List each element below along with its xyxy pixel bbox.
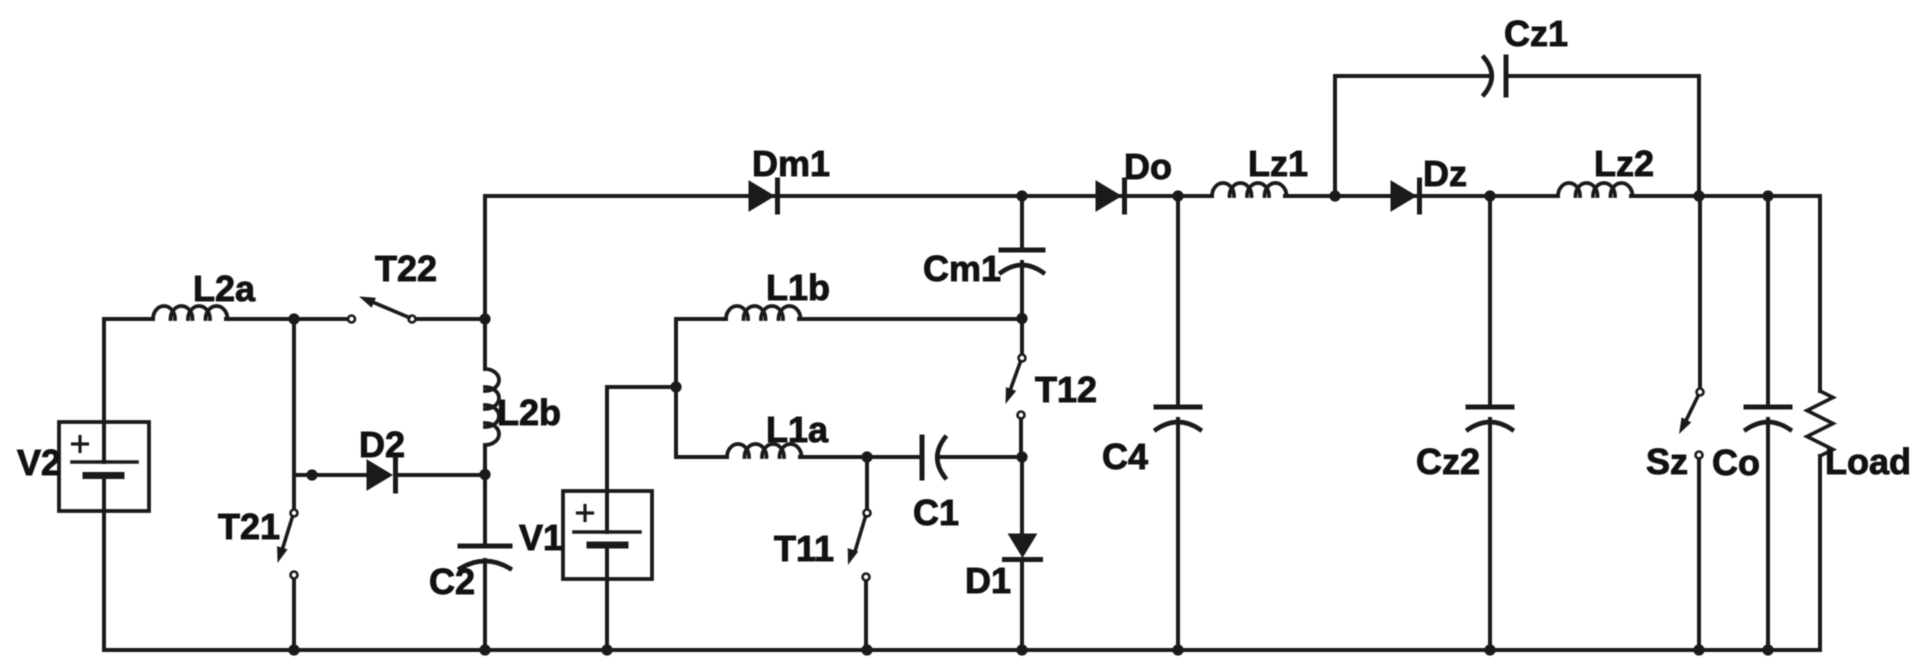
svg-text:Lz2: Lz2 [1594,143,1654,184]
svg-text:L2a: L2a [193,268,256,309]
svg-text:Co: Co [1712,442,1760,483]
svg-text:Dz: Dz [1423,153,1467,194]
svg-text:T22: T22 [375,248,437,289]
svg-text:T12: T12 [1035,369,1097,410]
svg-text:Load: Load [1825,441,1911,482]
svg-text:C1: C1 [913,492,959,533]
svg-text:L1a: L1a [766,409,829,450]
svg-text:L1b: L1b [766,267,830,308]
svg-text:L2b: L2b [497,392,561,433]
svg-text:T21: T21 [218,506,280,547]
svg-text:V1: V1 [519,517,563,558]
svg-text:Cz1: Cz1 [1504,13,1568,54]
svg-text:D2: D2 [359,424,405,465]
svg-text:Cz2: Cz2 [1416,441,1480,482]
svg-text:Sz: Sz [1646,441,1688,482]
svg-text:C2: C2 [429,561,475,602]
svg-text:V2: V2 [17,442,61,483]
svg-text:T11: T11 [774,528,834,569]
svg-text:Dm1: Dm1 [752,143,830,184]
svg-text:C4: C4 [1102,436,1148,477]
svg-text:Do: Do [1124,146,1172,187]
svg-text:Lz1: Lz1 [1248,143,1308,184]
svg-text:Cm1: Cm1 [923,248,1001,289]
svg-text:D1: D1 [965,560,1011,601]
